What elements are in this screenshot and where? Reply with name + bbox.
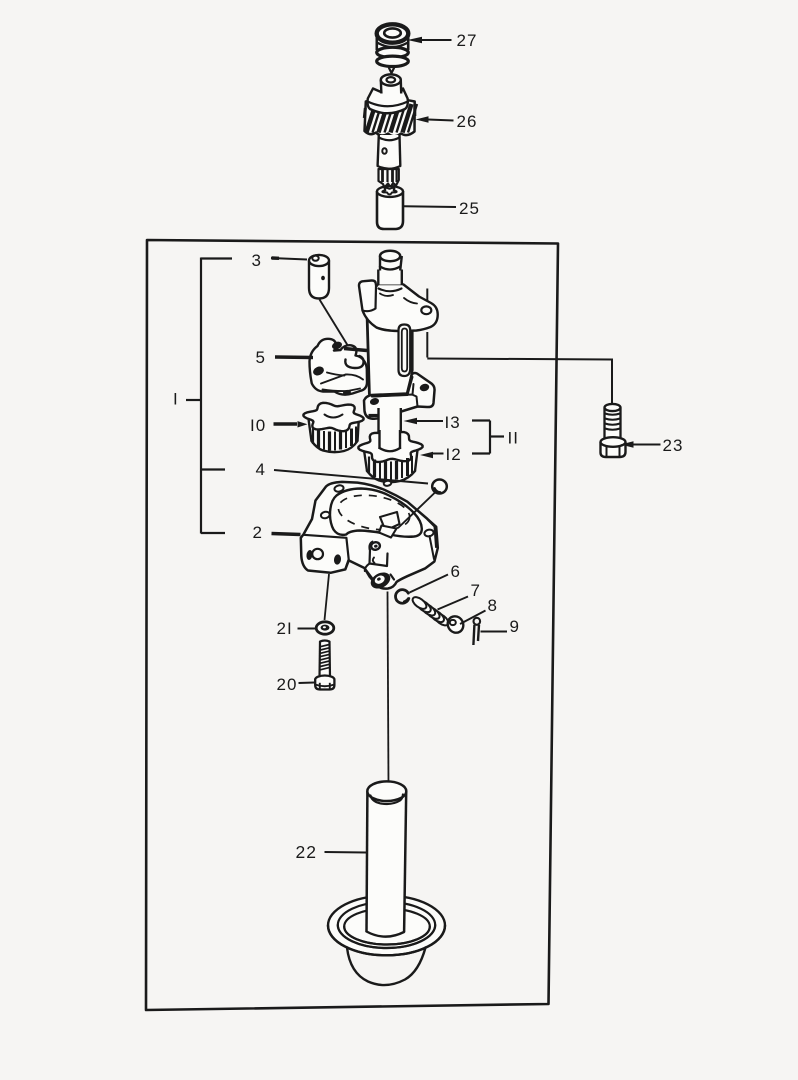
part 21 washer [316,622,334,634]
leader 5 [275,355,313,359]
part 13 shaft into rotor [380,430,401,454]
part 25 coupling sleeve [377,192,403,230]
leader 22 [325,851,367,854]
leader 7 [438,597,469,610]
svg-text:6: 6 [451,562,461,581]
svg-text:I2: I2 [446,445,462,464]
part 13 shaft [379,408,401,446]
part 5 gasket [310,339,368,395]
main body bottom flange [364,373,435,419]
leader 12 [433,453,444,455]
pin 3 alignment line [320,300,355,357]
leader 8 [460,611,486,625]
leader 2 [272,534,301,535]
leader 21 [298,628,317,630]
svg-text:2I: 2I [277,619,293,638]
svg-text:26: 26 [457,112,478,131]
leader 4 [274,470,428,484]
bracket group 1 [200,258,202,534]
part 10 outer rotor [310,418,359,452]
part 3 dowel pin [309,261,329,299]
part 4 check ball [432,480,447,494]
part 27 bushing [377,33,408,53]
part 9 cotter pin [474,618,481,625]
leader 25 [404,205,456,208]
bracket group 11 [489,421,491,454]
part 23 bolt [605,408,621,441]
leader 6 [410,575,449,593]
svg-text:20: 20 [277,675,298,694]
part 26 drive gear [365,99,415,137]
leader 23 arrow [633,444,661,446]
leader 23 routing [426,289,428,306]
part 22 strainer [328,896,445,956]
upper flange bottom edge [377,328,413,331]
part 2 housing [301,482,438,589]
main body upper flange [359,280,438,331]
ball 4 insertion line [398,493,435,529]
part 12 inner rotor [365,449,418,482]
leader 3 [271,258,307,260]
main body column [367,296,413,394]
border frame [146,240,558,1010]
svg-text:I0: I0 [250,416,266,435]
leader 27 [421,39,452,41]
svg-text:22: 22 [296,842,317,862]
leader 9 [481,631,508,633]
leader 20 [299,682,315,685]
svg-text:25: 25 [459,199,480,218]
svg-text:II: II [508,429,519,448]
part 8 spring seat [445,613,467,635]
main body shaft neck [378,270,402,285]
part 26 shaft [378,135,401,166]
svg-text:27: 27 [457,31,478,50]
part 20 bolt [320,642,331,678]
svg-text:3: 3 [252,251,262,270]
part 26 spline pinion [379,169,399,188]
svg-text:5: 5 [256,348,266,367]
svg-text:I: I [173,390,179,409]
part 6 relief ball [396,590,409,604]
column slot [399,325,411,377]
svg-text:7: 7 [471,581,481,600]
svg-text:I3: I3 [445,413,461,432]
svg-text:23: 23 [663,436,684,455]
leader 10 [274,422,298,425]
svg-text:4: 4 [256,460,266,479]
leader 13 [417,420,443,422]
leader 26 [428,120,454,121]
svg-text:2: 2 [253,523,263,542]
assembly line spout to strainer [388,592,389,787]
main body shaft cap [380,256,400,271]
part 7 relief spring [433,611,451,627]
assembly line housing to bolt 20 [325,574,330,620]
svg-text:9: 9 [510,617,520,636]
svg-text:8: 8 [488,596,498,615]
